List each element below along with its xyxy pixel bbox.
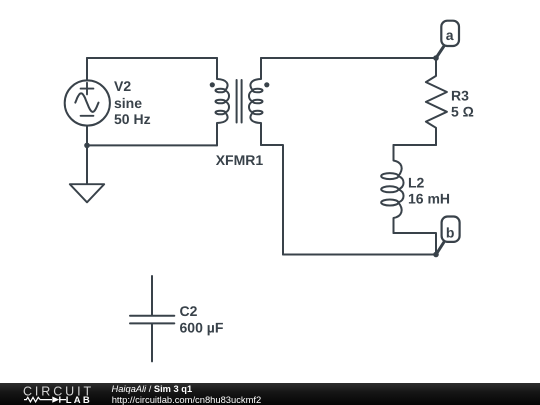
wire: secondary top to node a	[261, 57, 436, 59]
svg-text:a: a	[446, 27, 454, 43]
phase dot secondary	[264, 82, 269, 87]
svg-text:b: b	[446, 224, 455, 240]
node b callout	[436, 217, 460, 255]
ground	[70, 184, 104, 202]
svg-text:V2: V2	[114, 78, 131, 94]
node junction dot (source bottom)	[84, 143, 90, 149]
wire: primary bottom	[87, 144, 217, 146]
capacitor C2	[130, 276, 174, 361]
svg-text:sine: sine	[114, 95, 142, 111]
svg-text:L2: L2	[408, 174, 425, 190]
wire: R3 to L2	[394, 144, 437, 146]
voltage source V2	[65, 80, 110, 125]
CircuitLab logo	[0, 383, 100, 405]
footer bar	[0, 383, 540, 405]
logo resistor zigzag	[24, 397, 66, 402]
primary winding	[217, 58, 229, 145]
svg-text:C2: C2	[180, 303, 198, 319]
phase dot primary	[210, 82, 215, 87]
svg-text:XFMR1: XFMR1	[216, 152, 264, 168]
svg-text:5 Ω: 5 Ω	[451, 104, 474, 120]
wire: primary top (source to transformer)	[87, 57, 217, 59]
svg-text:LAB: LAB	[66, 395, 92, 405]
inductor L2	[381, 145, 403, 233]
core bars	[237, 80, 242, 123]
resistor R3	[426, 58, 447, 145]
svg-text:R3: R3	[451, 87, 469, 103]
wire: secondary bottom jog	[261, 145, 283, 255]
node a junction dot	[433, 55, 439, 61]
logo diode	[52, 397, 59, 403]
wire: L2 bottom to node b	[394, 233, 437, 255]
svg-text:600 µF: 600 µF	[180, 319, 224, 335]
wire: source bottom lead	[86, 126, 88, 184]
svg-text:16 mH: 16 mH	[408, 191, 450, 207]
transformer XFMR1	[210, 58, 270, 145]
svg-text:50 Hz: 50 Hz	[114, 111, 151, 127]
wire: source top lead	[86, 58, 88, 81]
node a callout	[436, 21, 459, 58]
node b junction dot	[433, 252, 439, 258]
wire: bottom return	[283, 254, 436, 256]
secondary winding	[249, 58, 261, 145]
